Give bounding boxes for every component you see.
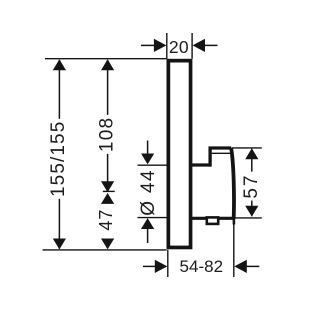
label 155/155 bbox=[48, 119, 69, 199]
label 57 bbox=[241, 172, 262, 201]
knob right face (slightly convex) bbox=[231, 148, 234, 219]
svg-text:Ø 44: Ø 44 bbox=[138, 169, 159, 216]
knob cap seam line bbox=[212, 152, 231, 154]
dimension 57 top arrow bbox=[245, 148, 258, 159]
dimension D44 upper arrow bbox=[141, 154, 154, 165]
dimension 54-82 right tail bbox=[246, 265, 259, 267]
extension line D44 bottom bbox=[138, 217, 167, 219]
extension line 54-82 left bbox=[167, 250, 169, 277]
svg-text:155/155: 155/155 bbox=[48, 121, 69, 197]
extension line D44 top bbox=[138, 164, 167, 166]
dimension D44 lower arrow bbox=[141, 218, 154, 229]
knob cap (left and top edges) bbox=[210, 148, 231, 167]
svg-text:108: 108 bbox=[97, 117, 118, 152]
dimension 54-82 left tail bbox=[143, 265, 156, 267]
dimension 155/155 bottom arrow bbox=[53, 239, 66, 250]
svg-text:47: 47 bbox=[96, 209, 116, 231]
dimension 57 line bbox=[251, 149, 253, 216]
dimension 155/155 line bbox=[58, 60, 60, 249]
dimension 20 right arrow bbox=[193, 39, 206, 52]
dimension 20 left tail bbox=[141, 44, 155, 46]
extension line 57 top bbox=[232, 147, 262, 149]
extension line 54-82 right bbox=[233, 220, 235, 277]
svg-text:57: 57 bbox=[241, 174, 262, 199]
dimension 108 top arrow bbox=[101, 59, 114, 70]
dimension D44 lower tail bbox=[147, 229, 149, 244]
svg-text:20: 20 bbox=[169, 37, 189, 57]
extension line bottom-left (plate bottom) bbox=[43, 249, 167, 251]
knob bottom edge bbox=[190, 217, 235, 220]
dimension 47 bottom arrow bbox=[101, 239, 114, 250]
extension line 20 left bbox=[166, 33, 168, 59]
dimension 47 top arrow bbox=[101, 193, 114, 204]
dimension 108 bottom arrow bbox=[101, 181, 114, 192]
dimension 54-82 right arrow bbox=[234, 260, 247, 273]
extension line 54-82 right (upper thick stub) bbox=[233, 219, 236, 225]
handle centre tick bbox=[103, 190, 115, 192]
dimension 54-82 left arrow bbox=[155, 260, 168, 273]
extension line 57 bottom bbox=[235, 217, 262, 219]
dimension 57 bottom arrow bbox=[245, 206, 258, 217]
extension line top-left (plate top) bbox=[45, 58, 167, 60]
escutcheon plate (side view, 155x155x20) bbox=[168, 61, 190, 248]
label 108 bbox=[97, 115, 118, 154]
dimension 20 right tail bbox=[205, 44, 218, 46]
knob body top edge bbox=[190, 163, 211, 166]
dimension 108 line bbox=[107, 60, 109, 192]
dimension 20 left arrow bbox=[154, 39, 167, 52]
extension line 20 right bbox=[191, 33, 193, 59]
svg-text:54-82: 54-82 bbox=[180, 257, 223, 276]
dimension 155/155 top arrow bbox=[53, 59, 66, 70]
dimension D44 upper tail bbox=[147, 141, 149, 155]
knob bottom tab bbox=[207, 217, 218, 224]
